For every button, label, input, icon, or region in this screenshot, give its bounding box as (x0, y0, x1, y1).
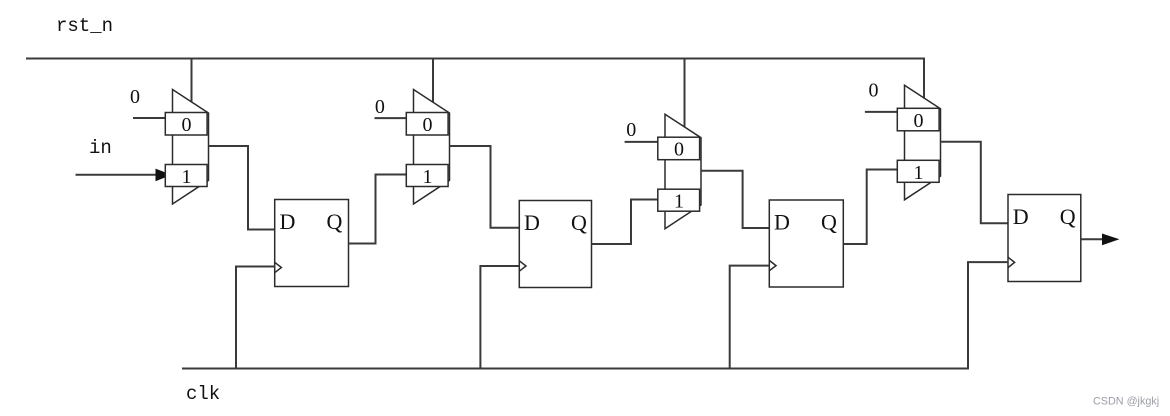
wire rst_n tap to mux M3 select (684, 59, 686, 128)
svg-text:D: D (280, 209, 296, 234)
wire rst_n tap to mux M1 select (191, 59, 193, 103)
dff U2 box (519, 201, 591, 288)
svg-text:D: D (774, 210, 790, 235)
mux M2 input box 1 (406, 165, 448, 189)
mux M3 input box 1 (658, 189, 700, 213)
mux M1 trapezoid (173, 90, 209, 205)
mux M4 input box 0 (897, 108, 939, 132)
wire clk bus horizontal with corner up to dff U4 clock (182, 262, 1008, 368)
svg-text:in: in (89, 137, 112, 159)
dff U4 box (1008, 195, 1081, 282)
mux M1 constant 0 stub wire (133, 117, 173, 119)
wire clk riser to dff U2 (480, 266, 519, 369)
svg-text:CSDN @jkgkj: CSDN @jkgkj (1093, 396, 1159, 408)
dff U3 box (769, 200, 843, 287)
svg-text:1: 1 (423, 166, 433, 188)
mux M3 trapezoid (665, 114, 701, 229)
svg-text:Q: Q (1060, 204, 1076, 229)
mux M3 input box 0 (658, 137, 700, 161)
wire mux M1 output to dff U1 D (209, 146, 275, 230)
wire dff U4 Q output with arrowhead (1081, 238, 1103, 240)
mux M2 input box 0 (406, 113, 448, 137)
mux M4 constant 0 stub wire (865, 111, 905, 113)
dff U1 box (275, 200, 349, 287)
mux M1 input box 1 (165, 165, 207, 189)
svg-text:0: 0 (914, 110, 924, 132)
svg-text:0: 0 (375, 96, 385, 118)
mux M3 constant 0 stub wire (625, 141, 666, 143)
dff U3 clock triangle (769, 260, 776, 270)
wire dff U1 Q to mux M2 pin 1 (349, 175, 407, 244)
svg-text:D: D (524, 210, 540, 235)
dff U1 clock triangle (275, 262, 282, 272)
dff U2 clock triangle (519, 261, 526, 271)
svg-text:0: 0 (674, 139, 684, 161)
wire mux M3 output to dff U3 D (701, 171, 769, 228)
wire mux M4 output to dff U4 D (941, 142, 1009, 223)
dff U4 clock triangle (1008, 257, 1015, 267)
wire dff U3 Q to mux M4 pin 1 (843, 170, 897, 245)
mux M2 constant 0 stub wire (375, 117, 415, 119)
svg-text:Q: Q (327, 209, 343, 234)
mux M1 input box 0 (165, 113, 207, 137)
mux M2 trapezoid (414, 90, 450, 205)
svg-text:D: D (1013, 204, 1029, 229)
mux M4 input box 1 (897, 160, 939, 184)
svg-text:1: 1 (674, 191, 684, 213)
svg-text:1: 1 (914, 162, 924, 184)
wire mux M2 output to dff U2 D (450, 146, 520, 228)
svg-text:1: 1 (182, 166, 192, 188)
svg-text:0: 0 (626, 119, 636, 141)
svg-text:0: 0 (869, 80, 879, 102)
svg-text:Q: Q (571, 210, 587, 235)
wire dff U2 Q to mux M3 pin 1 (592, 200, 658, 245)
svg-text:rst_n: rst_n (56, 15, 113, 37)
svg-text:0: 0 (130, 86, 140, 108)
svg-text:0: 0 (423, 114, 433, 136)
svg-text:Q: Q (821, 210, 837, 235)
wire rst_n tap to mux M2 select (432, 59, 434, 103)
wire input in with arrowhead into mux M1 pin 1 (76, 174, 158, 176)
wire clk riser to dff U3 (730, 266, 770, 369)
wire clk riser to dff U1 (236, 267, 275, 369)
svg-text:0: 0 (182, 114, 192, 136)
mux M4 trapezoid (905, 85, 941, 200)
wire rst_n bus horizontal with corner down to mux M4 select (26, 59, 924, 99)
svg-text:clk: clk (186, 383, 220, 405)
